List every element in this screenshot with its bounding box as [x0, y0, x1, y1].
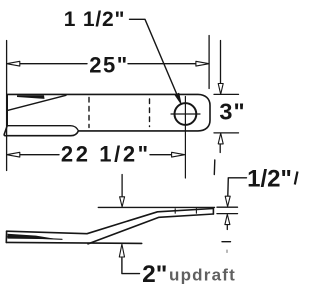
3in upper arrow	[220, 41, 222, 85]
0.5in lower dash	[222, 241, 231, 243]
left extension line	[6, 41, 8, 171]
blade top view outline	[4, 94, 210, 135]
0.5in bracket leader	[228, 178, 247, 196]
svg-text:22 1/2": 22 1/2"	[61, 142, 151, 167]
svg-text:3": 3"	[219, 99, 245, 125]
hole hidden tick left	[174, 209, 176, 213]
hole centerline horizontal	[171, 113, 200, 115]
2in dim up arrow and leader	[122, 258, 140, 274]
blade bevel step line	[7, 126, 78, 131]
svg-text:1/2": 1/2"	[247, 165, 292, 192]
25in dim line right segment	[128, 63, 196, 65]
hole centerline vertical	[184, 97, 186, 179]
2in dim down arrow	[121, 175, 123, 198]
3in lower arrow	[219, 144, 221, 153]
0.5in lower arrow	[226, 224, 228, 230]
bend hidden line left	[88, 98, 90, 128]
25in left arrowhead	[7, 61, 20, 66]
svg-text:2": 2"	[142, 261, 167, 288]
side view left end cap	[5, 231, 7, 242]
hole hidden tick right	[195, 209, 197, 214]
cutting bevel diagonal	[7, 95, 66, 110]
0.5in top extension line	[217, 206, 238, 208]
side view bevel shading	[8, 234, 59, 239]
side view incline bottom edge	[88, 214, 213, 244]
stray quote artifact	[295, 172, 298, 185]
3in bottom extension line	[214, 132, 239, 134]
top reference line	[98, 206, 214, 208]
0.5in bottom extension line	[217, 213, 238, 215]
side view right end cap	[212, 209, 214, 215]
stray vertical mark	[213, 160, 216, 175]
right extension line 25in	[208, 36, 210, 89]
22.5in dim line left segment	[20, 154, 59, 156]
bolt hole	[175, 103, 197, 125]
22.5in left arrowhead	[7, 152, 20, 157]
25in right arrowhead	[196, 61, 209, 66]
stray mark below dash	[226, 250, 228, 253]
leader line 1 1/2in	[130, 19, 178, 96]
22.5in dim line right segment	[150, 154, 172, 156]
leader arrowhead	[175, 93, 181, 104]
bevel shading wedge	[17, 95, 45, 99]
side view bottom edge with reference line	[6, 242, 141, 243]
25in dim line left segment	[20, 63, 87, 65]
svg-text:1 1/2": 1 1/2"	[64, 8, 125, 31]
svg-text:25": 25"	[89, 52, 128, 77]
side view bevel line	[7, 237, 62, 240]
side view top edge	[7, 209, 214, 234]
22.5in right arrowhead	[172, 152, 185, 157]
svg-text:updraft: updraft	[169, 266, 236, 285]
3in top extension line	[214, 93, 239, 95]
0.5in upper arrowhead	[225, 196, 230, 206]
bend hidden line right	[149, 99, 151, 127]
